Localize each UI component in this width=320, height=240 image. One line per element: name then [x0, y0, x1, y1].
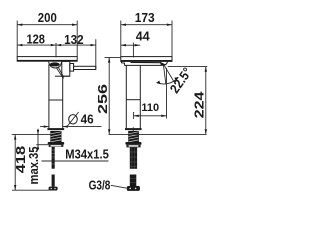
braided hose lower [130, 175, 137, 187]
lever bar (side view, pointing right) [74, 66, 96, 69]
spout underside wedge [57, 67, 64, 78]
washer front [126, 145, 140, 148]
rod end fitting [49, 187, 58, 191]
spout head block [55, 61, 70, 76]
svg-text:46: 46 [81, 111, 94, 126]
wire extension centerline x=133.4 [132, 43, 134, 58]
label M34x1.5 [42, 147, 109, 162]
body column left edge [48, 64, 50, 128]
svg-text:173: 173 [135, 10, 155, 25]
mounting nut [48, 142, 64, 145]
node centerline tick x=56 [55, 43, 57, 57]
dimension 44 [121, 29, 150, 47]
washer [49, 145, 64, 147]
svg-text:132: 132 [64, 32, 84, 47]
svg-text:max.35: max.35 [26, 147, 41, 185]
wire extension line left x=17.2 [16, 21, 18, 57]
spout base cap [121, 62, 167, 66]
wire extension line lever tip x=95.8 [95, 39, 97, 69]
spout plate (front, edge-on) [121, 57, 172, 62]
shank thread front (hatched) [129, 131, 139, 142]
svg-text:224: 224 [192, 91, 207, 119]
shank thread M34 (hatched) [51, 131, 62, 142]
deck bottom line [36, 144, 48, 146]
hose end elbow G3/8 [127, 186, 140, 191]
angle reference line 1 [164, 65, 166, 83]
lever (front view, tilted wedge) [131, 62, 167, 66]
svg-text:G3/8: G3/8 [89, 177, 111, 192]
svg-text:110: 110 [141, 102, 159, 114]
lever pivot nub [70, 64, 74, 72]
svg-text:128: 128 [26, 31, 45, 46]
svg-text:44: 44 [136, 29, 150, 44]
dimension 128 [17, 31, 56, 46]
aerator outlet (dark ellipse) [50, 62, 60, 66]
svg-text:200: 200 [38, 10, 57, 25]
label G3/8 with leader [89, 177, 127, 192]
svg-text:256: 256 [95, 84, 110, 114]
dimension 132 [56, 32, 96, 47]
base lip [48, 129, 64, 130]
dimension 256 [95, 57, 121, 134]
node centerline tick above thread [132, 127, 134, 131]
dimension max.35 [26, 129, 41, 185]
body joint line [49, 99, 63, 101]
angle reference line 2 [164, 65, 174, 82]
dimension 224 [168, 67, 208, 135]
wire extension line left x=120.8 [120, 21, 122, 57]
wire extension line right x=172 [171, 21, 173, 62]
dimension 110 [134, 68, 167, 119]
deck top line [12, 133, 51, 135]
deck line (right view) [109, 133, 207, 135]
braided hose upper [130, 147, 137, 168]
dimension diameter 46 [40, 111, 102, 128]
spout plate (side) [17, 57, 77, 62]
threaded rod upper segment [52, 147, 55, 169]
svg-text:M34x1.5: M34x1.5 [65, 147, 109, 162]
wire extension line right x=77.2 [76, 21, 78, 57]
dimension 200 [17, 10, 77, 26]
svg-text:418: 418 [13, 146, 28, 174]
body column right edge [62, 76, 64, 128]
dimension 418 [12, 134, 49, 190]
aerator recess arch [49, 62, 62, 68]
dimension 173 [121, 10, 172, 26]
mounting nut front [125, 142, 141, 145]
body column front [126, 65, 142, 129]
angle arc [156, 77, 178, 84]
threaded rod lower segment [52, 175, 55, 187]
